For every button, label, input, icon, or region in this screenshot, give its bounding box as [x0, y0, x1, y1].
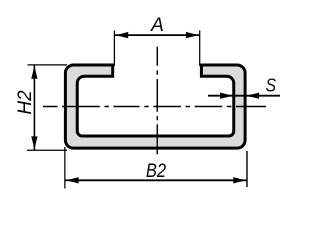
svg-text:S: S — [266, 74, 277, 95]
svg-text:B2: B2 — [146, 161, 167, 182]
svg-text:A: A — [150, 15, 164, 36]
svg-text:H2: H2 — [15, 90, 36, 115]
